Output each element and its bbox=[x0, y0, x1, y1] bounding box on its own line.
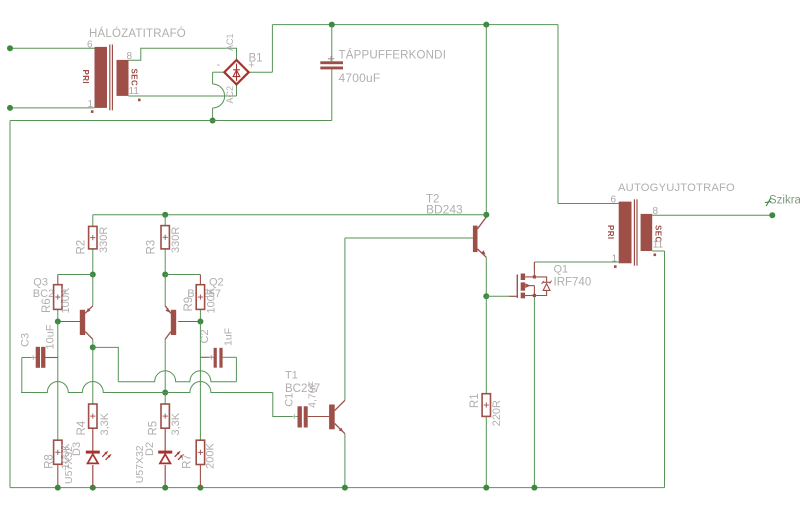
svg-text:100K: 100K bbox=[205, 287, 217, 313]
svg-text:R5: R5 bbox=[148, 421, 160, 436]
svg-text:100K: 100K bbox=[60, 287, 72, 313]
svg-text:IRF740: IRF740 bbox=[554, 277, 592, 289]
svg-text:1uF: 1uF bbox=[223, 328, 235, 346]
svg-text:11: 11 bbox=[129, 86, 140, 97]
svg-text:PRI: PRI bbox=[81, 70, 90, 85]
svg-text:Q1: Q1 bbox=[554, 264, 569, 276]
svg-text:C1: C1 bbox=[284, 393, 296, 407]
svg-text:-: - bbox=[217, 59, 221, 71]
svg-text:1: 1 bbox=[87, 99, 93, 110]
svg-text:R9: R9 bbox=[183, 297, 195, 312]
svg-text:PRI: PRI bbox=[606, 225, 615, 240]
svg-text:3,3K: 3,3K bbox=[99, 412, 111, 435]
svg-text:R3: R3 bbox=[145, 240, 157, 255]
svg-text:8: 8 bbox=[653, 206, 659, 217]
svg-text:R7: R7 bbox=[182, 454, 194, 469]
svg-text:TÁPPUFFERKONDI: TÁPPUFFERKONDI bbox=[339, 49, 447, 62]
svg-text:11: 11 bbox=[653, 239, 664, 250]
svg-text:R8: R8 bbox=[44, 454, 56, 469]
svg-text:C2: C2 bbox=[199, 329, 211, 343]
svg-text:6: 6 bbox=[87, 40, 93, 51]
svg-text:R4: R4 bbox=[76, 420, 88, 435]
svg-text:+: + bbox=[248, 59, 254, 71]
svg-text:AUTOGYUJTOTRAFO: AUTOGYUJTOTRAFO bbox=[618, 182, 735, 194]
svg-text:HÁLÓZATITRAFÓ: HÁLÓZATITRAFÓ bbox=[89, 27, 186, 40]
svg-text:4,7uF: 4,7uF bbox=[307, 381, 319, 408]
svg-text:D3: D3 bbox=[71, 442, 83, 456]
svg-text:R6: R6 bbox=[41, 298, 53, 313]
svg-text:Q2: Q2 bbox=[209, 277, 224, 289]
svg-text:3,3K: 3,3K bbox=[170, 412, 182, 435]
svg-text:200K: 200K bbox=[205, 443, 217, 469]
svg-text:Q3: Q3 bbox=[33, 277, 48, 289]
svg-text:AC2: AC2 bbox=[225, 86, 235, 104]
svg-text:T1: T1 bbox=[285, 369, 298, 381]
svg-text:4700uF: 4700uF bbox=[339, 71, 381, 85]
svg-text:8: 8 bbox=[127, 51, 133, 62]
svg-text:D2: D2 bbox=[144, 442, 156, 456]
svg-text:C3: C3 bbox=[19, 333, 31, 347]
svg-text:220R: 220R bbox=[491, 400, 503, 426]
svg-text:330R: 330R bbox=[170, 227, 182, 253]
svg-text:BD243: BD243 bbox=[426, 203, 463, 217]
svg-text:10uF: 10uF bbox=[45, 324, 57, 349]
svg-text:Szikra: Szikra bbox=[769, 195, 800, 207]
svg-text:SEC: SEC bbox=[129, 69, 138, 87]
svg-text:6: 6 bbox=[610, 194, 616, 205]
svg-text:R1: R1 bbox=[469, 393, 481, 408]
svg-text:AC1: AC1 bbox=[225, 33, 235, 51]
svg-text:1: 1 bbox=[611, 253, 617, 264]
svg-text:R2: R2 bbox=[76, 240, 88, 255]
svg-text:330R: 330R bbox=[98, 227, 110, 253]
